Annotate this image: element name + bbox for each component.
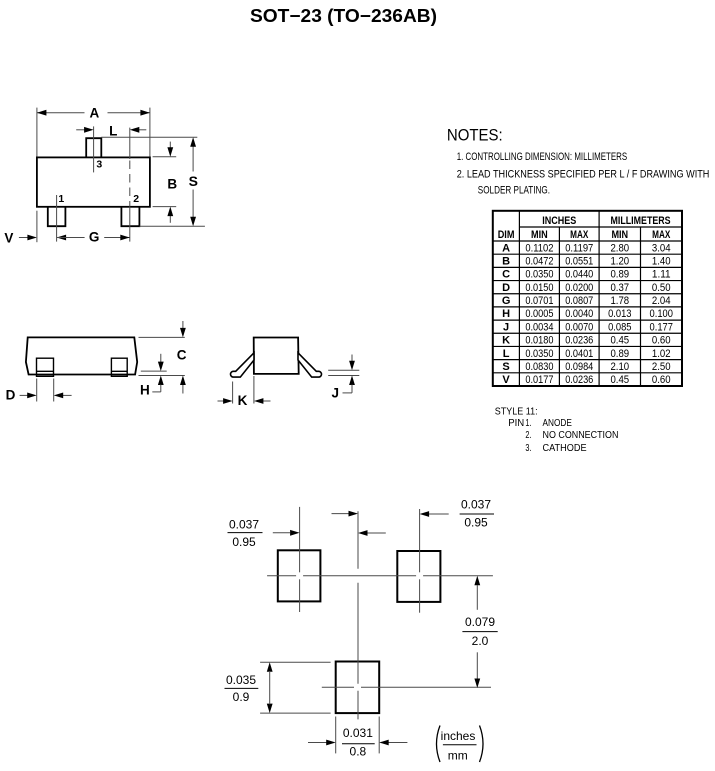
svg-text:0.031: 0.031 (343, 726, 373, 740)
right pad vertical centerline (419, 509, 421, 613)
svg-text:0.0200: 0.0200 (565, 282, 593, 294)
svg-text:inches: inches (441, 729, 476, 743)
svg-text:1.40: 1.40 (652, 255, 671, 267)
svg-text:2.50: 2.50 (652, 361, 671, 373)
footprint pad 2 (right) (397, 551, 440, 602)
svg-text:0.45: 0.45 (610, 374, 629, 386)
dim C with arrows (139, 321, 187, 394)
dim B with arrows (153, 142, 178, 223)
pin 3 number label (96, 158, 102, 170)
footprint pad 3 (bottom) (336, 662, 380, 714)
svg-text:3.: 3. (525, 443, 531, 454)
svg-text:1.: 1. (525, 418, 531, 429)
svg-text:0.0440: 0.0440 (565, 269, 593, 281)
svg-text:2.10: 2.10 (610, 361, 629, 373)
svg-text:0.0236: 0.0236 (565, 335, 593, 347)
left pad vertical centerline (299, 507, 301, 612)
svg-text:D: D (502, 282, 510, 294)
dim H with arrows and leader (140, 354, 167, 398)
svg-text:0.0807: 0.0807 (565, 295, 593, 307)
note 1 (457, 151, 628, 163)
svg-text:2.: 2. (525, 430, 531, 441)
svg-text:B: B (502, 255, 510, 267)
svg-text:L: L (109, 123, 117, 138)
svg-text:G: G (89, 230, 100, 245)
svg-text:2.0: 2.0 (472, 634, 489, 648)
svg-text:A: A (90, 105, 100, 120)
svg-text:0.0401: 0.0401 (565, 348, 593, 360)
svg-text:MIN: MIN (531, 229, 548, 241)
dim 0.037/0.95 right with arrow (332, 498, 495, 530)
svg-text:K: K (502, 335, 510, 347)
svg-text:1.20: 1.20 (610, 255, 629, 267)
svg-text:1.02: 1.02 (652, 348, 671, 360)
svg-text:K: K (238, 393, 248, 408)
svg-text:PIN: PIN (508, 418, 524, 429)
svg-text:H: H (140, 383, 150, 398)
svg-text:ANODE: ANODE (543, 418, 573, 429)
svg-text:0.89: 0.89 (610, 348, 629, 360)
svg-text:0.1102: 0.1102 (525, 242, 553, 254)
pin 3 tab (top view) (86, 138, 101, 157)
svg-text:0.8: 0.8 (350, 744, 367, 758)
side view lead 2 (111, 358, 127, 376)
svg-text:0.085: 0.085 (608, 321, 631, 333)
svg-text:0.0034: 0.0034 (525, 321, 553, 333)
pin 1 (top view) (48, 207, 66, 226)
dim 0.037/0.95 left with arrow (228, 518, 386, 550)
svg-text:0.0984: 0.0984 (565, 361, 593, 373)
svg-text:H: H (502, 308, 510, 320)
svg-text:0.60: 0.60 (652, 335, 671, 347)
svg-text:SOLDER PLATING.: SOLDER PLATING. (478, 184, 550, 196)
dim K with arrows (218, 376, 271, 408)
svg-text:3: 3 (96, 158, 102, 170)
svg-text:3.04: 3.04 (652, 242, 671, 254)
title SOT-23 (TO-236AB) (250, 6, 437, 26)
svg-text:0.0350: 0.0350 (525, 269, 553, 281)
footprint horizontal centerline (267, 575, 493, 577)
svg-text:0.079: 0.079 (465, 615, 495, 629)
svg-text:CATHODE: CATHODE (543, 443, 587, 454)
svg-text:C: C (502, 269, 510, 281)
style 11 pin list (495, 406, 619, 453)
dim V with arrow (4, 211, 37, 246)
dim G with arrows (57, 230, 130, 245)
pin 1 number label (58, 193, 64, 205)
svg-text:2.80: 2.80 (610, 242, 629, 254)
svg-text:0.0830: 0.0830 (525, 361, 553, 373)
svg-text:MILLIMETERS: MILLIMETERS (611, 215, 671, 227)
svg-text:0.89: 0.89 (610, 269, 629, 281)
dim L with arrows (76, 123, 146, 138)
dimension table (493, 211, 682, 386)
svg-text:J: J (332, 385, 340, 400)
note 2 continuation (478, 184, 550, 196)
end view package body (254, 338, 299, 374)
dim S with arrows (101, 137, 205, 226)
svg-text:A: A (502, 242, 510, 254)
svg-text:0.95: 0.95 (232, 535, 256, 549)
side view package body (26, 337, 137, 374)
pin 1 centerline (56, 195, 58, 242)
package vertical centerline (357, 511, 359, 719)
end view left gull-wing lead (230, 353, 254, 377)
svg-text:B: B (167, 176, 177, 191)
pin 2 centerline (dashed through body) (129, 128, 131, 242)
end view right gull-wing lead (298, 353, 322, 377)
svg-text:0.0150: 0.0150 (525, 282, 553, 294)
pin 2 (top view) (121, 207, 139, 226)
svg-text:0.177: 0.177 (650, 321, 673, 333)
svg-text:INCHES: INCHES (542, 215, 576, 227)
notes heading (447, 126, 503, 145)
svg-text:0.45: 0.45 (610, 335, 629, 347)
svg-text:2. LEAD THICKNESS SPECIFIED PE: 2. LEAD THICKNESS SPECIFIED PER L / F DR… (457, 169, 710, 181)
svg-text:0.0040: 0.0040 (565, 308, 593, 320)
dim D with arrows (6, 379, 72, 403)
svg-text:0.0070: 0.0070 (565, 321, 593, 333)
svg-text:1.78: 1.78 (610, 295, 629, 307)
footprint pad 1 (left) (278, 550, 321, 601)
svg-text:S: S (189, 173, 198, 189)
svg-text:S: S (502, 361, 509, 373)
svg-text:2: 2 (133, 193, 139, 205)
svg-text:0.37: 0.37 (610, 282, 629, 294)
bottom pad horizontal centerline (322, 686, 491, 688)
dim 0.031/0.8 with arrows (308, 717, 407, 759)
side view lead 1 (37, 358, 54, 376)
dim 0.079/2.0 with arrows (462, 576, 497, 688)
dim A with arrows (37, 105, 150, 156)
svg-text:0.0472: 0.0472 (525, 255, 553, 267)
svg-text:V: V (502, 374, 510, 386)
svg-text:0.035: 0.035 (226, 673, 256, 687)
svg-text:V: V (4, 230, 13, 245)
svg-text:0.013: 0.013 (608, 308, 631, 320)
top view package body (37, 157, 150, 206)
svg-text:C: C (177, 348, 187, 363)
svg-text:1.11: 1.11 (652, 269, 671, 281)
svg-text:0.100: 0.100 (650, 308, 673, 320)
svg-text:J: J (503, 321, 509, 333)
pin 3 centerline (93, 126, 95, 172)
svg-text:2.04: 2.04 (652, 295, 671, 307)
svg-text:0.0005: 0.0005 (525, 308, 553, 320)
svg-text:0.037: 0.037 (461, 498, 491, 512)
units legend (inches/mm) (437, 726, 484, 763)
svg-text:0.037: 0.037 (229, 518, 259, 532)
svg-text:D: D (6, 388, 16, 403)
svg-text:SOT−23 (TO−236AB): SOT−23 (TO−236AB) (250, 6, 437, 26)
svg-text:1. CONTROLLING DIMENSION: MILL: 1. CONTROLLING DIMENSION: MILLIMETERS (457, 151, 628, 163)
svg-text:0.60: 0.60 (652, 374, 671, 386)
note 2 (457, 169, 710, 181)
svg-text:MAX: MAX (570, 229, 589, 241)
pin 2 number label (133, 193, 139, 205)
svg-text:MIN: MIN (611, 229, 628, 241)
svg-text:0.0350: 0.0350 (525, 348, 553, 360)
svg-text:0.0236: 0.0236 (565, 374, 593, 386)
svg-text:0.0177: 0.0177 (525, 374, 553, 386)
svg-text:L: L (503, 348, 510, 360)
svg-text:MAX: MAX (652, 229, 671, 241)
svg-text:NO CONNECTION: NO CONNECTION (543, 430, 619, 441)
svg-text:0.1197: 0.1197 (565, 242, 593, 254)
svg-text:0.0180: 0.0180 (525, 335, 553, 347)
svg-text:G: G (502, 295, 511, 307)
dim J with arrows and leader (328, 355, 359, 401)
svg-text:DIM: DIM (498, 229, 515, 241)
svg-text:0.50: 0.50 (652, 282, 671, 294)
svg-text:mm: mm (448, 748, 468, 762)
svg-text:0.95: 0.95 (464, 516, 488, 530)
dim 0.035/0.9 with arrows (225, 662, 331, 713)
svg-text:0.0551: 0.0551 (565, 255, 593, 267)
svg-text:NOTES:: NOTES: (447, 126, 503, 145)
svg-text:0.0701: 0.0701 (525, 295, 553, 307)
svg-text:0.9: 0.9 (233, 690, 250, 704)
svg-text:STYLE 11:: STYLE 11: (495, 406, 538, 417)
svg-text:1: 1 (58, 193, 64, 205)
